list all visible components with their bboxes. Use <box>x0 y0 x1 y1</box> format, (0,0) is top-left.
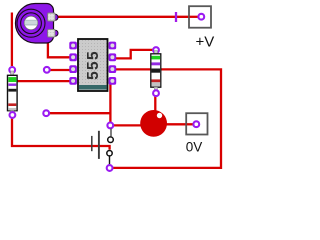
wire node D ring to junction <box>49 112 111 114</box>
wire node A ring to 555 pin row3 left <box>49 69 70 71</box>
resistor R1 body <box>8 75 18 110</box>
resistor R2 lead stem bottom <box>154 87 157 91</box>
wire R1 bottom down and across to switch contact <box>12 118 110 150</box>
IC U1 pin 3 (left row3) <box>69 65 77 73</box>
potentiometer VR1 dial <box>17 9 45 37</box>
wire pot wiper to +V rail <box>57 16 199 18</box>
resistor R2 lead stem top <box>154 51 157 55</box>
resistor R1 bottom ring <box>10 112 16 118</box>
switch SW1 plate short <box>91 136 93 151</box>
wire LED cathode to 0V terminal <box>167 123 194 125</box>
wire 555 pin row3 right to right rail and bottom rail <box>112 69 221 167</box>
svg-text:0V: 0V <box>186 140 203 155</box>
node A ring <box>44 67 50 73</box>
resistor R1 lead stem top <box>11 71 14 76</box>
IC U1 pin 1 (left row1) <box>69 42 77 50</box>
potentiometer VR1 body <box>15 4 53 44</box>
wire R1 to 555 pin row4 left <box>17 80 70 82</box>
IC U1 pin 5 (right row4) <box>109 77 117 85</box>
IC U1 pin 8 (right row1) <box>109 42 117 50</box>
wire node B to LED anode <box>113 124 141 126</box>
IC U1 pin 2 (left row2) <box>69 53 77 61</box>
pin marker on +V wire <box>175 12 177 22</box>
wire 555 pin row4 right down to node B <box>109 83 111 123</box>
node B ring <box>107 123 113 129</box>
resistor R2 body <box>151 54 161 87</box>
LED D1 <box>140 110 167 137</box>
resistor R1 top ring <box>9 67 15 73</box>
resistor R2 bottom ring <box>153 90 159 96</box>
IC U1 pin 4 (left row4) <box>69 77 77 85</box>
wire pot bottom pin to 555 pin row2 left <box>48 37 70 58</box>
switch SW1 contact 1 <box>108 137 114 143</box>
switch SW1 lead to node C <box>109 156 111 164</box>
switch SW1 lead to node B <box>110 129 112 137</box>
IC U1 pin 6 (right row3) <box>109 65 117 73</box>
wire 555 pin row2 right to R2 top <box>114 50 153 59</box>
potentiometer VR1 terminal tabs <box>53 14 58 20</box>
node D ring <box>43 110 49 116</box>
resistor R1 lead stem bottom <box>11 111 14 113</box>
svg-text:+V: +V <box>196 33 215 50</box>
wire pot left pin down to R1 top <box>11 13 13 67</box>
wire R2 bottom to LED top <box>154 96 156 112</box>
switch SW1 plate long <box>98 131 100 159</box>
switch SW1 contact 2 <box>107 151 112 156</box>
terminal 0V box <box>186 113 207 134</box>
IC U1 pin 7 (right row2) <box>109 53 117 61</box>
resistor R2 top ring <box>153 47 159 53</box>
terminal +V box <box>189 6 211 28</box>
svg-text:555: 555 <box>85 50 102 80</box>
IC U1 555 body <box>78 39 108 91</box>
node C ring <box>107 165 113 171</box>
